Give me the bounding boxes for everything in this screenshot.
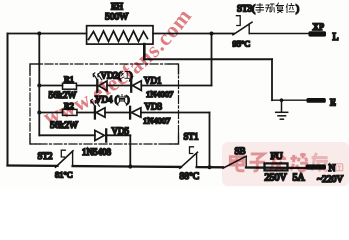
svg-text:81°C: 81°C: [55, 170, 73, 180]
pushbutton SB: [223, 156, 246, 168]
thermal switch ST3 (manual reset, 95C): [233, 16, 252, 35]
label VD2(red): [101, 71, 133, 81]
plug pin N: [306, 164, 326, 169]
CJK wei: [286, 4, 294, 13]
watermark pink haze band: [222, 142, 349, 186]
wire: row2 indicator string y=112.5: [39, 112, 209, 114]
diode VD5 1N5408: [95, 129, 106, 141]
wire: earth tap from EH body down: [143, 44, 146, 59]
LED VD4 (yellow): [91, 99, 105, 118]
svg-text:ST3(: ST3(: [237, 4, 255, 14]
svg-text:1N4007: 1N4007: [143, 116, 170, 126]
wire: main top wire left segment (L line to EH): [8, 33, 87, 35]
svg-text:L: L: [333, 32, 339, 43]
wire: row1 indicator string y=85.5: [39, 85, 211, 87]
enclosure box corner accents: [30, 64, 179, 144]
wire: bottom wire from left bus to ST2: [8, 164, 58, 167]
watermark CJK red (dianzifashaoyou): [230, 153, 342, 171]
CJK zi: [250, 154, 266, 171]
svg-text:1N4007: 1N4007: [146, 89, 173, 99]
wire: row3 VD5 y=135.3: [39, 134, 130, 136]
svg-text:500W: 500W: [105, 13, 128, 23]
wire: earth to plug pin E: [272, 99, 307, 101]
CJK you: [312, 153, 328, 171]
CJK dong: [266, 4, 275, 12]
svg-text:VD1: VD1: [144, 76, 162, 86]
svg-text:XP: XP: [313, 22, 325, 32]
svg-text:ST2: ST2: [38, 151, 53, 161]
junction dot at (39,33.5): [37, 32, 41, 36]
thermal switch ST2 (81C): [56, 150, 74, 167]
wire: tap vertical x=39 from top wire down to VD5 row: [38, 34, 40, 136]
wire: earth vertical down right side: [271, 59, 273, 100]
diode VD1 1N4007: [131, 80, 141, 92]
wire: bottom wire ST2 to ST1: [73, 165, 181, 168]
CJK fa: [270, 153, 286, 171]
wire: main top wire EH to ST3 pivot: [153, 33, 234, 35]
junction dot row2 bottom: [207, 165, 211, 169]
wire: row1 right vertical up to main wire: [211, 34, 213, 86]
label VD4(yellow): [95, 95, 130, 105]
wire: bottom wire SB through fuse to N: [246, 166, 306, 169]
CJK fu: [276, 3, 284, 13]
wire: main top wire ST3 output to plug pin L: [249, 33, 308, 35]
thermal switch ST1 (88C): [180, 147, 198, 169]
svg-text:): ): [296, 4, 299, 14]
svg-text:R1: R1: [64, 74, 74, 84]
CJK shao: [291, 153, 307, 171]
wire: row3 vertical down to bottom wire: [129, 135, 131, 166]
resistor R1: [63, 83, 77, 89]
wire: bottom wire ST1 to SB: [197, 166, 223, 168]
svg-text:): ): [127, 95, 130, 105]
wire: row2 right vertical down to bottom wire: [209, 113, 211, 168]
svg-text:VD3: VD3: [145, 102, 163, 112]
LED VD2 (red): [93, 73, 107, 92]
svg-text:ST1: ST1: [184, 132, 199, 142]
junction dot at (211.5,33.5): [210, 32, 214, 36]
svg-text:88°C: 88°C: [180, 171, 200, 182]
CJK shou: [256, 4, 264, 13]
svg-text:1N5408: 1N5408: [82, 147, 111, 157]
ground symbol: [276, 100, 288, 119]
svg-text:VD5: VD5: [112, 126, 130, 136]
heater EH 500W: box with zigzag element: [87, 26, 153, 44]
junction dot row2 left: [37, 111, 41, 115]
CJK hong: [121, 71, 130, 79]
plug pin E: [307, 98, 326, 103]
fuse FU: [265, 163, 288, 170]
CJK huang: [118, 95, 126, 104]
CJK small net mark: [336, 164, 343, 171]
label ST3(manual reset): [237, 3, 299, 14]
junction dot row1 left: [37, 84, 41, 88]
CJK dian: [230, 153, 244, 171]
wire: earth horizontal run to right side: [144, 58, 272, 60]
plug pin L (XP): [309, 31, 327, 36]
enclosure dash-dot box (indicator board): [30, 64, 179, 144]
svg-text:95°C: 95°C: [233, 39, 251, 49]
junction dot ground tap: [280, 98, 284, 102]
diode VD3 1N4007: [130, 107, 141, 119]
wire: left vertical bus: [7, 34, 9, 166]
svg-text:EH: EH: [111, 2, 123, 12]
svg-text:E: E: [330, 99, 336, 109]
resistor R2: [63, 109, 78, 115]
junction dot row3 bottom: [128, 164, 132, 168]
